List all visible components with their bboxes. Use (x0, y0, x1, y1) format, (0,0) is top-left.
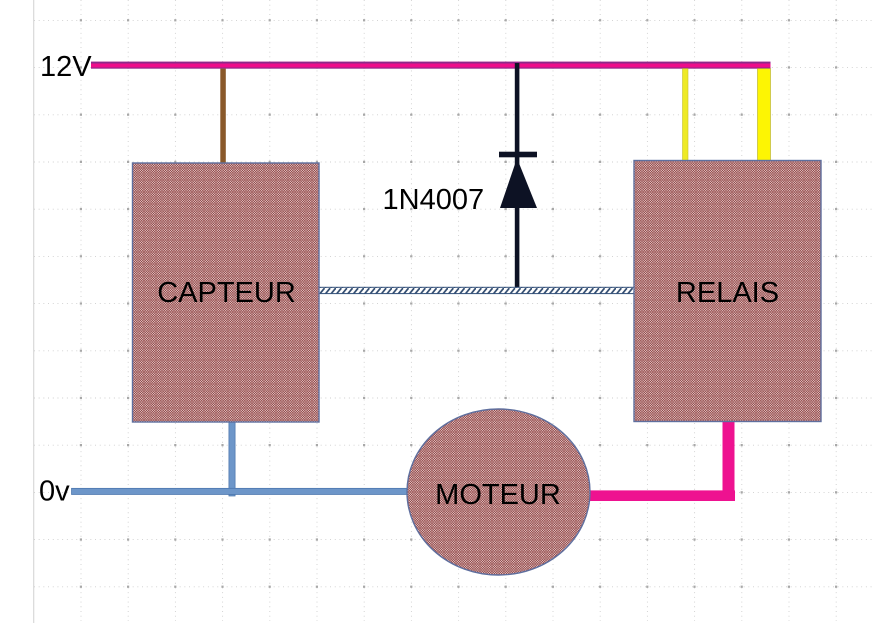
component CAPTEUR box (133, 163, 320, 422)
svg-text:CAPTEUR: CAPTEUR (157, 277, 296, 309)
svg-text:1N4007: 1N4007 (383, 184, 485, 216)
wire thin yellow (relais coil) (683, 69, 689, 163)
component MOTEUR circle (407, 409, 590, 575)
svg-text:12V: 12V (40, 51, 92, 83)
wire pink vertical (relais to motor) (723, 422, 735, 502)
wire blue vertical (capteur to 0v) (229, 422, 235, 496)
diode D1 vertical lead (515, 63, 520, 291)
wire pink horizontal (motor feed) (589, 490, 735, 501)
wire 12V rail (91, 62, 771, 69)
diode D1 cathode bar (499, 152, 537, 158)
wire thick yellow (relais supply) (758, 69, 771, 161)
wire hatched bus (capteur-relais link) (319, 287, 635, 293)
component RELAIS box (634, 161, 821, 422)
svg-text:MOTEUR: MOTEUR (435, 479, 561, 511)
svg-text:0v: 0v (39, 476, 70, 508)
wire brown (capteur supply) (220, 69, 226, 165)
wire 0v line (72, 488, 408, 494)
svg-text:RELAIS: RELAIS (676, 277, 779, 309)
diode D1 anode triangle (500, 158, 537, 208)
